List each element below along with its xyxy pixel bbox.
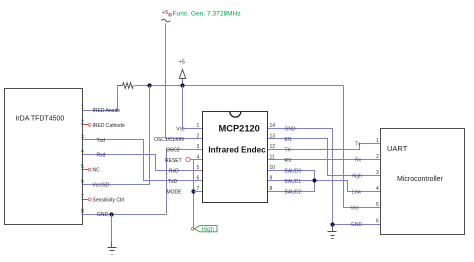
svg-text:Vcc: Vcc (176, 126, 185, 132)
svg-text:3: 3 (197, 144, 200, 150)
svg-text:IRED Cathode: IRED Cathode (93, 123, 125, 129)
pin 6 Vcc/SD (81, 179, 110, 189)
svg-text:Infrared Endec: Infrared Endec (208, 145, 266, 154)
wire IRED anode up (82, 86, 118, 111)
svg-text:2: 2 (376, 154, 379, 160)
function generator source +5 label (162, 10, 171, 16)
wire MCP GND pin14 to UART GND (268, 129, 381, 225)
svg-text:High: High (202, 227, 214, 233)
svg-text:Tx: Tx (355, 142, 361, 148)
svg-text:7: 7 (197, 186, 200, 192)
pin 2 IRED Cathode (81, 119, 125, 128)
svg-text:4: 4 (376, 186, 379, 192)
pin 1 IRED Anode (81, 105, 120, 115)
svg-text:GND: GND (351, 222, 363, 228)
svg-text:TxD: TxD (168, 179, 178, 185)
svg-text:12: 12 (270, 144, 276, 150)
pin stub MODE (194, 191, 203, 193)
pin 3 Txd (81, 134, 105, 144)
MCP pin 8 BAUD2 (270, 186, 302, 196)
svg-text:BAUD0: BAUD0 (285, 168, 302, 174)
MCP pin 7 MODE (167, 186, 200, 196)
MCP pin 5 RxD (169, 165, 200, 175)
svg-text:13: 13 (270, 133, 276, 139)
node rail-+5 (180, 83, 184, 87)
svg-text:RxD: RxD (169, 168, 179, 174)
svg-text:8: 8 (270, 186, 273, 192)
svg-text:10: 10 (270, 165, 276, 171)
svg-text:UART: UART (387, 144, 408, 153)
svg-text:Microcontroller: Microcontroller (397, 176, 444, 183)
MCP pin 6 TxD (168, 175, 200, 185)
UART pin 5 Vcc (351, 202, 380, 212)
svg-text:BAUD1: BAUD1 (285, 179, 302, 185)
UART pin 1 Tx (355, 138, 379, 148)
net flag High (192, 226, 218, 233)
svg-text:IRED Anode: IRED Anode (93, 108, 121, 114)
UART microcontroller U3 box (381, 129, 465, 235)
wire MCP RX to UART Rx (268, 159, 381, 161)
wire RESET/MODE tie down to High flag (193, 160, 195, 229)
svg-text:RX: RX (285, 158, 293, 164)
pin 7 Sensitivity Ctrl (81, 194, 124, 204)
svg-text:8: 8 (81, 209, 84, 215)
wire IrDA Rxd to MCP RxD (82, 155, 203, 171)
MCP pin 3 OSC2 (166, 144, 200, 154)
wire OSC2 to GND net (167, 150, 203, 215)
svg-text:7: 7 (81, 194, 84, 200)
UART pin 2 Rx (355, 154, 379, 164)
function generator sine symbol (161, 19, 170, 22)
MCP pin 1 Vcc (176, 123, 199, 133)
UART pin 3 High (352, 170, 380, 180)
MCP2120 infrared endec U2 box (203, 112, 268, 203)
node UART GND (330, 222, 334, 226)
svg-text:Txd: Txd (97, 138, 106, 144)
svg-text:Vcc: Vcc (351, 206, 360, 212)
MCP pin 4 RESET (165, 154, 200, 164)
wire +5 down to MCP Vcc pin1 (183, 86, 203, 129)
svg-text:GND: GND (97, 212, 109, 218)
svg-text:RESET: RESET (165, 158, 182, 164)
svg-text:9: 9 (270, 175, 273, 181)
svg-text:6: 6 (376, 219, 379, 225)
svg-text:11: 11 (270, 154, 275, 160)
svg-text:Rx: Rx (355, 158, 362, 164)
svg-text:EN: EN (285, 137, 292, 143)
svg-text:6: 6 (197, 175, 200, 181)
wire MCP EN to UART High (268, 139, 381, 176)
wire +5 rail (135, 85, 344, 87)
node MODE (191, 189, 195, 193)
svg-text:Low: Low (352, 190, 362, 196)
svg-text:TX: TX (285, 147, 292, 153)
wire func gen to OSC1/CLKIN (165, 24, 167, 139)
pin 4 Rxd (81, 149, 106, 159)
svg-text:GND: GND (285, 126, 297, 132)
wire OSC1/CLKIN horizontal (166, 138, 203, 140)
svg-text:1: 1 (376, 138, 379, 144)
pin 8 GND (81, 209, 109, 219)
ground symbol G2 (328, 225, 337, 239)
svg-text:1: 1 (197, 123, 200, 129)
node rail-VccSD (147, 83, 151, 87)
svg-text:3: 3 (376, 170, 379, 176)
resistor R (IRED anode to +5 rail) (118, 83, 134, 89)
svg-text:BAUD2: BAUD2 (285, 189, 302, 195)
svg-text:+5: +5 (162, 10, 168, 16)
MCP pin 2 OSC1/CLKIN (154, 133, 200, 143)
UART pin 4 Low (352, 186, 379, 196)
pin stub RESET (191, 159, 203, 161)
svg-text:14: 14 (270, 123, 276, 129)
wire +5 rail to UART Vcc (344, 86, 381, 208)
no-connect circle RESET (186, 157, 190, 161)
svg-text:5: 5 (376, 202, 379, 208)
svg-text:4: 4 (81, 149, 84, 155)
svg-text:MODE: MODE (167, 189, 183, 195)
MCP pin 14 GND (270, 123, 297, 133)
node GND junction (109, 212, 113, 216)
wire rail down to IrDA Vcc/SD (82, 86, 150, 185)
svg-text:NC: NC (93, 168, 101, 174)
svg-text:+5: +5 (179, 60, 185, 66)
wire BAUD1 to UART Low (268, 181, 381, 192)
pin 5 NC (81, 164, 100, 174)
MCP pin 10 BAUD0 (270, 165, 302, 175)
svg-text:IrDA TFDT4500: IrDA TFDT4500 (15, 116, 64, 123)
svg-text:4: 4 (197, 154, 200, 160)
UART pin 6 GND (351, 219, 379, 229)
svg-text:OSC2: OSC2 (166, 147, 180, 153)
MCP pin 13 EN (270, 133, 292, 143)
wire BAUD0 (268, 171, 315, 192)
MCP pin 12 TX (270, 144, 292, 154)
svg-text:High: High (352, 174, 363, 180)
svg-text:Func. Gen. 7.3728MHz: Func. Gen. 7.3728MHz (173, 11, 241, 18)
svg-text:Sensitivity Ctrl: Sensitivity Ctrl (93, 197, 125, 203)
svg-text:3: 3 (81, 134, 84, 140)
+5 power symbol (179, 60, 186, 86)
svg-text:5: 5 (197, 165, 200, 171)
ground symbol G1 (108, 215, 117, 255)
svg-text:6: 6 (81, 179, 84, 185)
svg-text:2: 2 (197, 133, 200, 139)
svg-text:Vcc/SD: Vcc/SD (93, 183, 110, 189)
svg-text:Rxd: Rxd (97, 153, 106, 159)
MCP pin 9 BAUD1 (270, 175, 302, 185)
IrDA transceiver U1 box (5, 89, 83, 225)
wire MCP TX to UART Tx (268, 144, 381, 150)
svg-text:1: 1 (81, 105, 84, 111)
wire IrDA GND row (82, 214, 167, 216)
svg-text:MCP2120: MCP2120 (219, 123, 260, 133)
MCP pin 11 RX (270, 154, 293, 164)
svg-text:OSC1/CLKIN: OSC1/CLKIN (154, 137, 184, 143)
wire IrDA Txd to MCP TxD (82, 140, 203, 181)
node BAUD junction (312, 178, 316, 182)
